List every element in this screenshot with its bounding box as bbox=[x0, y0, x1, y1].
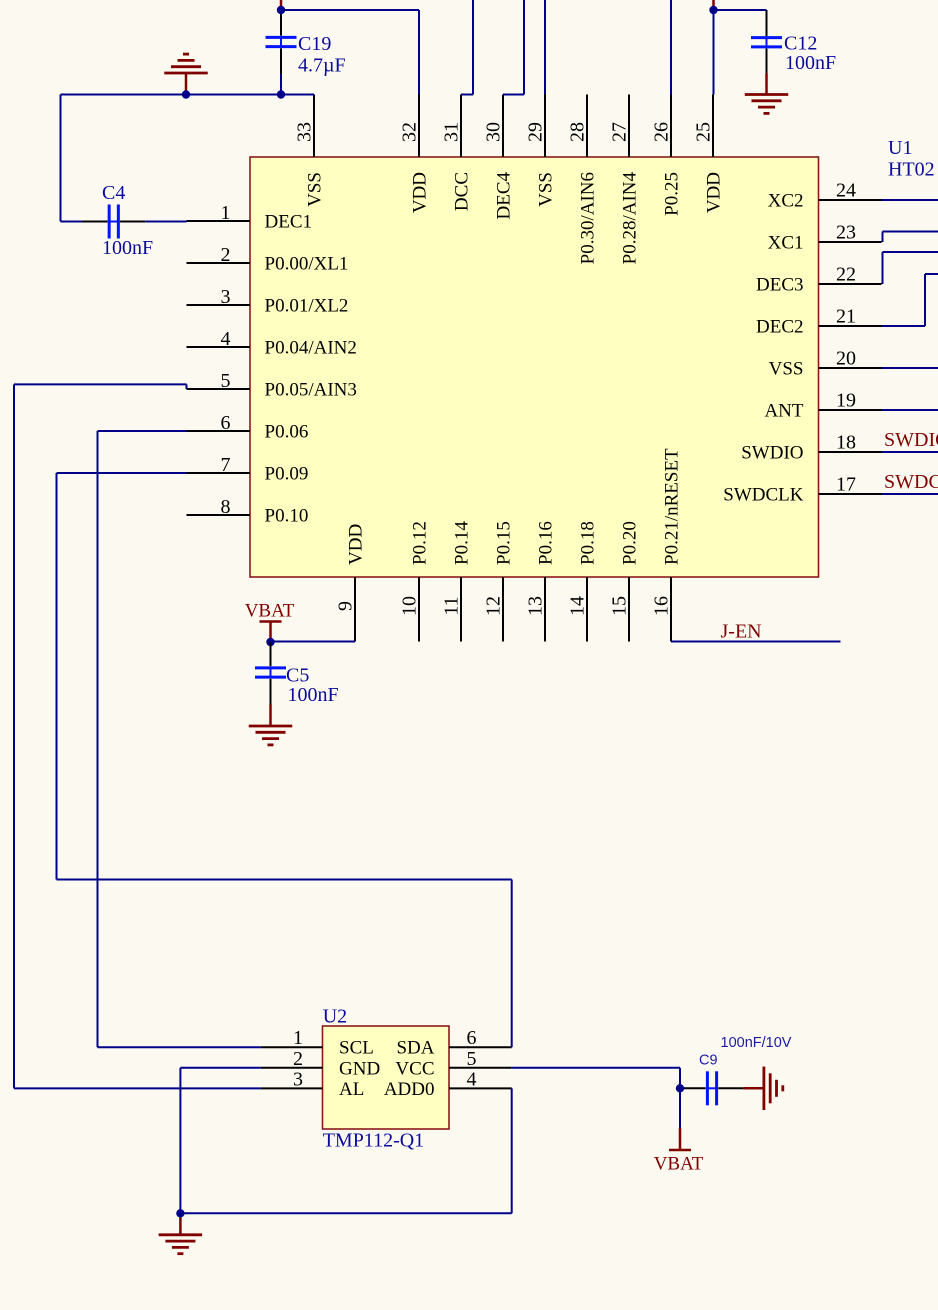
svg-text:VDD: VDD bbox=[410, 172, 431, 213]
svg-text:24: 24 bbox=[836, 180, 856, 202]
svg-text:3: 3 bbox=[221, 286, 231, 308]
svg-text:SWDIO: SWDIO bbox=[741, 443, 803, 464]
svg-text:27: 27 bbox=[609, 122, 631, 142]
svg-text:32: 32 bbox=[399, 122, 421, 142]
svg-text:P0.14: P0.14 bbox=[452, 521, 473, 565]
svg-text:P0.21/nRESET: P0.21/nRESET bbox=[662, 448, 683, 565]
svg-text:14: 14 bbox=[567, 596, 589, 616]
svg-text:1: 1 bbox=[293, 1027, 303, 1049]
svg-text:11: 11 bbox=[441, 596, 463, 615]
svg-text:DEC4: DEC4 bbox=[494, 172, 515, 220]
svg-text:U1: U1 bbox=[888, 137, 912, 159]
svg-text:J-EN: J-EN bbox=[721, 621, 762, 643]
svg-text:SWDIO: SWDIO bbox=[884, 429, 938, 451]
svg-text:P0.20: P0.20 bbox=[620, 521, 641, 565]
svg-text:16: 16 bbox=[651, 596, 673, 616]
svg-text:25: 25 bbox=[693, 122, 715, 142]
svg-text:31: 31 bbox=[441, 122, 463, 142]
svg-text:HT02: HT02 bbox=[888, 159, 935, 181]
svg-text:C9: C9 bbox=[699, 1053, 718, 1069]
svg-text:U2: U2 bbox=[323, 1006, 347, 1028]
svg-text:2: 2 bbox=[221, 244, 231, 266]
svg-text:VBAT: VBAT bbox=[654, 1154, 704, 1175]
svg-text:19: 19 bbox=[836, 390, 856, 412]
svg-text:P0.04/AIN2: P0.04/AIN2 bbox=[265, 338, 357, 359]
svg-text:100nF: 100nF bbox=[785, 52, 836, 74]
svg-text:VSS: VSS bbox=[536, 172, 557, 207]
svg-text:P0.06: P0.06 bbox=[265, 422, 309, 443]
svg-text:DEC1: DEC1 bbox=[265, 212, 313, 233]
svg-text:2: 2 bbox=[293, 1048, 303, 1070]
svg-text:VSS: VSS bbox=[305, 172, 326, 207]
svg-text:100nF: 100nF bbox=[102, 237, 153, 259]
svg-text:VDD: VDD bbox=[704, 172, 725, 213]
svg-text:17: 17 bbox=[836, 474, 856, 496]
svg-text:30: 30 bbox=[483, 122, 505, 142]
svg-text:10: 10 bbox=[399, 596, 421, 616]
svg-text:100nF/10V: 100nF/10V bbox=[721, 1035, 792, 1051]
svg-text:6: 6 bbox=[467, 1027, 477, 1049]
svg-text:C19: C19 bbox=[298, 33, 331, 55]
svg-text:SWDCLK: SWDCLK bbox=[723, 485, 804, 506]
svg-text:VDD: VDD bbox=[346, 524, 367, 565]
svg-text:20: 20 bbox=[836, 348, 856, 370]
svg-text:23: 23 bbox=[836, 222, 856, 244]
svg-text:22: 22 bbox=[836, 264, 856, 286]
svg-text:XC2: XC2 bbox=[768, 191, 804, 212]
svg-text:P0.30/AIN6: P0.30/AIN6 bbox=[578, 172, 599, 264]
svg-text:C4: C4 bbox=[102, 182, 125, 204]
svg-text:3: 3 bbox=[293, 1068, 303, 1090]
svg-text:P0.12: P0.12 bbox=[410, 521, 431, 565]
svg-text:P0.00/XL1: P0.00/XL1 bbox=[265, 254, 349, 275]
svg-text:TMP112-Q1: TMP112-Q1 bbox=[323, 1130, 424, 1152]
svg-text:7: 7 bbox=[221, 454, 231, 476]
svg-text:18: 18 bbox=[836, 432, 856, 454]
svg-text:AL: AL bbox=[339, 1079, 364, 1100]
svg-text:VCC: VCC bbox=[395, 1058, 434, 1079]
svg-text:DEC2: DEC2 bbox=[756, 317, 804, 338]
svg-text:P0.25: P0.25 bbox=[662, 172, 683, 216]
svg-text:VSS: VSS bbox=[769, 359, 804, 380]
svg-text:26: 26 bbox=[651, 122, 673, 142]
svg-text:P0.28/AIN4: P0.28/AIN4 bbox=[620, 172, 641, 265]
svg-text:ADD0: ADD0 bbox=[384, 1079, 435, 1100]
svg-text:4: 4 bbox=[467, 1068, 477, 1090]
svg-text:15: 15 bbox=[609, 596, 631, 616]
svg-text:4: 4 bbox=[221, 328, 231, 350]
svg-text:100nF: 100nF bbox=[288, 684, 339, 706]
svg-text:13: 13 bbox=[525, 596, 547, 616]
svg-text:21: 21 bbox=[836, 306, 856, 328]
svg-text:9: 9 bbox=[335, 601, 357, 611]
svg-text:SDA: SDA bbox=[396, 1038, 434, 1059]
svg-text:8: 8 bbox=[221, 496, 231, 518]
svg-text:5: 5 bbox=[467, 1048, 477, 1070]
svg-text:P0.18: P0.18 bbox=[578, 521, 599, 565]
svg-text:P0.16: P0.16 bbox=[536, 521, 557, 565]
svg-text:SWDCLK: SWDCLK bbox=[884, 471, 938, 493]
svg-text:P0.09: P0.09 bbox=[265, 464, 309, 485]
svg-text:5: 5 bbox=[221, 370, 231, 392]
svg-text:12: 12 bbox=[483, 596, 505, 616]
svg-text:P0.05/AIN3: P0.05/AIN3 bbox=[265, 380, 357, 401]
svg-text:GND: GND bbox=[339, 1058, 380, 1079]
svg-text:VBAT: VBAT bbox=[245, 601, 295, 622]
svg-text:33: 33 bbox=[294, 122, 316, 142]
svg-text:DCC: DCC bbox=[452, 172, 473, 211]
svg-text:1: 1 bbox=[221, 202, 231, 224]
svg-text:ANT: ANT bbox=[764, 401, 803, 422]
svg-text:P0.01/XL2: P0.01/XL2 bbox=[265, 296, 349, 317]
svg-text:P0.15: P0.15 bbox=[494, 521, 515, 565]
svg-text:P0.10: P0.10 bbox=[265, 506, 309, 527]
svg-text:XC1: XC1 bbox=[768, 233, 804, 254]
svg-text:28: 28 bbox=[567, 122, 589, 142]
svg-text:DEC3: DEC3 bbox=[756, 275, 804, 296]
svg-text:6: 6 bbox=[221, 412, 231, 434]
svg-text:29: 29 bbox=[525, 122, 547, 142]
svg-text:SCL: SCL bbox=[339, 1038, 374, 1059]
svg-text:4.7µF: 4.7µF bbox=[298, 54, 346, 76]
